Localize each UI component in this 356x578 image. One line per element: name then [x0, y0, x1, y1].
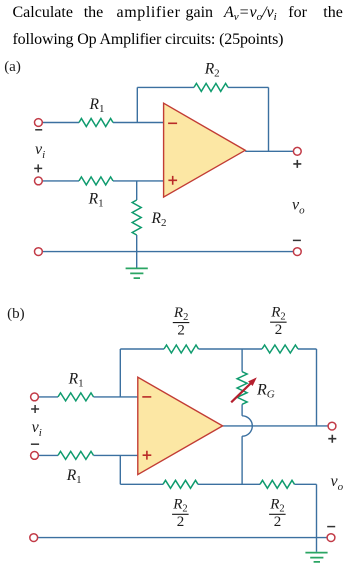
- wire: (a) feedback top rail: [137, 86, 268, 88]
- label R2/2 (b) bottom-right fraction: [269, 497, 286, 530]
- terminal: (b) bottom-left: [30, 534, 38, 542]
- resistor RG zigzag: [237, 372, 247, 405]
- svg-text:R1: R1: [89, 96, 105, 115]
- label R2/2 (b) top-right fraction: [270, 305, 287, 338]
- svg-text:vi: vi: [35, 141, 45, 161]
- wire: (b) RG branch upper stub from top rail: [241, 349, 243, 372]
- resistor R2/2 (b) bottom-right zigzag: [260, 480, 295, 488]
- minus sign at (b) vo: [327, 526, 335, 528]
- svg-text:R2: R2: [204, 60, 220, 79]
- wire: (b) right vertical from bottom feedback rail through ground rail: [316, 484, 318, 552]
- svg-text:R2: R2: [173, 305, 188, 323]
- wire: (a) R2 branch vertical upper stub: [136, 181, 138, 200]
- plus sign at (b) vo: [328, 435, 336, 443]
- minus sign at (a) vi top: [35, 129, 42, 131]
- svg-text:2: 2: [274, 514, 282, 530]
- resistor R2/2 (b) bottom-left zigzag: [163, 480, 198, 488]
- minus sign at (a) vo: [293, 239, 301, 241]
- minus sign at (b) vi bottom: [31, 443, 39, 445]
- wire: (b) left vertical up to top rail: [119, 349, 121, 397]
- ground (a): [126, 268, 148, 278]
- resistor R1 (b) bottom zigzag: [58, 451, 94, 459]
- title line 1: [13, 5, 73, 21]
- svg-text:R2: R2: [151, 210, 167, 229]
- terminal: (a) bottom-right: [293, 248, 301, 256]
- plus sign at (a) vi bottom: [34, 164, 42, 172]
- wire: (a) output from op-amp apex to vo terminal: [245, 150, 293, 152]
- wire: (a) bottom input from vi- terminal to op-amp plus input: [42, 180, 163, 182]
- terminal: (b) vi bottom: [31, 452, 39, 460]
- plus sign at (b) vi top: [31, 405, 39, 413]
- svg-text:R1: R1: [68, 370, 84, 389]
- wire: (b) RG branch from hop down to bottom feedback rail: [241, 436, 243, 484]
- wire: (b) output from apex to vo terminal: [223, 425, 329, 427]
- svg-text:(a): (a): [4, 59, 21, 75]
- wire: (a) R2 branch lower stub down to ground: [136, 235, 138, 268]
- op-amp U2 (b) triangle: [138, 377, 223, 474]
- terminal: (a) vo top: [293, 147, 301, 155]
- svg-text:R2: R2: [269, 497, 284, 515]
- wire: (b) bottom ground rail: [38, 537, 328, 539]
- resistor R2 (a) vertical zigzag: [132, 200, 141, 235]
- arrow across RG: [231, 381, 253, 402]
- wire: (b) RG branch lower stub to hop: [241, 404, 243, 416]
- svg-text:2: 2: [275, 322, 283, 338]
- wire: (b) bottom feedback rail: [120, 483, 316, 485]
- resistor R1 (a) bottom zigzag: [79, 177, 113, 185]
- title line 2: [13, 32, 284, 48]
- svg-text:R2: R2: [172, 497, 187, 515]
- plus sign at (a) vo: [293, 160, 301, 168]
- svg-text:(b): (b): [7, 306, 25, 322]
- wire: (a) top input from vi+ terminal to op-amp minus input: [42, 122, 163, 124]
- svg-text:2: 2: [177, 322, 185, 338]
- svg-text:vo: vo: [292, 196, 305, 216]
- op-amp U1 (a) triangle: [164, 103, 246, 197]
- wire: (a) bottom rail: [42, 251, 293, 253]
- resistor R2/2 (b) top-right zigzag: [262, 345, 298, 353]
- label R2/2 (b) bottom-left fraction: [172, 497, 189, 530]
- op-amp U1 plus input mark: [168, 176, 177, 185]
- op-amp U2 plus input mark: [143, 451, 152, 460]
- svg-text:vi: vi: [32, 419, 42, 439]
- label R2/2 (b) top-left fraction: [173, 305, 190, 338]
- svg-text:R2: R2: [270, 305, 285, 323]
- op-amp U1 minus input mark: [168, 122, 177, 124]
- wire: (a) feedback right vertical: [268, 87, 270, 151]
- wire: (a) feedback left vertical: [136, 87, 138, 122]
- terminal: (b) vo top: [328, 422, 336, 430]
- svg-text:R1: R1: [66, 467, 82, 486]
- resistor R1 (a) top zigzag: [79, 119, 113, 127]
- resistor R2 (a) feedback zigzag: [194, 83, 228, 91]
- wire: (b) right vertical from top rail to output: [316, 349, 318, 426]
- svg-text:2: 2: [177, 514, 185, 530]
- svg-text:R1: R1: [88, 191, 104, 210]
- ground (b): [305, 553, 327, 562]
- svg-text:vo: vo: [331, 473, 344, 493]
- wire: (b) top rail: [120, 348, 316, 350]
- terminal: (a) bottom-left: [35, 248, 43, 256]
- svg-text:RG: RG: [256, 381, 275, 400]
- terminal: (b) vi top: [31, 393, 39, 401]
- terminal: (b) bottom-right: [327, 534, 335, 542]
- wire hop over output: [242, 416, 252, 436]
- terminal: (a) vi top: [35, 119, 43, 127]
- wire: (b) top input from vi+ terminal to op-amp minus input: [38, 396, 137, 398]
- wire: (b) bottom input from vi- terminal to op-amp plus input: [38, 454, 137, 456]
- resistor R1 (b) top zigzag: [58, 393, 94, 401]
- wire: (b) left vertical down to bottom feedback rail: [119, 455, 121, 484]
- terminal: (a) vi bottom: [35, 177, 43, 185]
- resistor R2/2 (b) top-left zigzag: [164, 345, 199, 353]
- op-amp U2 minus input mark: [142, 396, 151, 398]
